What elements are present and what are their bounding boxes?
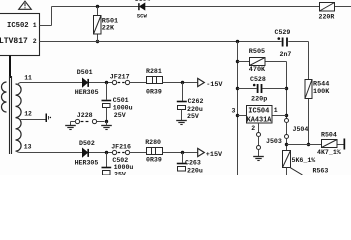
svg-text:25V: 25V: [187, 113, 199, 120]
svg-text:JF216: JF216: [111, 143, 131, 150]
svg-text:220u: 220u: [187, 106, 203, 113]
svg-text:R505: R505: [249, 48, 265, 56]
svg-text:25V: 25V: [114, 112, 126, 119]
svg-text:C529: C529: [275, 29, 291, 36]
svg-text:1000u: 1000u: [114, 164, 134, 171]
svg-text:4K7_1%: 4K7_1%: [317, 149, 341, 156]
svg-text:JF217: JF217: [110, 73, 130, 80]
svg-text:IC502: IC502: [7, 22, 29, 30]
svg-text:C501: C501: [113, 97, 129, 104]
svg-text:5K6_1%: 5K6_1%: [292, 157, 316, 164]
svg-text:2: 2: [33, 38, 37, 45]
svg-text:470K: 470K: [249, 66, 266, 74]
svg-text:D502: D502: [79, 140, 95, 147]
svg-text:C528: C528: [250, 76, 266, 83]
svg-text:13: 13: [24, 144, 32, 151]
svg-text:HER305: HER305: [75, 89, 99, 96]
svg-text:100K: 100K: [313, 88, 330, 96]
svg-text:J504: J504: [293, 126, 309, 133]
svg-text:25V: 25V: [114, 171, 126, 175]
svg-text:C263: C263: [185, 159, 201, 166]
svg-text:C262: C262: [188, 98, 204, 105]
svg-text:R280: R280: [145, 139, 161, 146]
svg-text:SCW: SCW: [137, 13, 148, 20]
svg-text:HER305: HER305: [75, 159, 99, 166]
svg-text:R281: R281: [146, 68, 162, 75]
svg-text:C502: C502: [112, 157, 128, 164]
svg-text:LTV817: LTV817: [0, 37, 28, 46]
svg-text:R563: R563: [313, 167, 329, 174]
svg-text:2n7: 2n7: [280, 51, 292, 58]
svg-text:+15V: +15V: [206, 151, 223, 159]
svg-text:220u: 220u: [187, 167, 203, 174]
svg-text:11: 11: [24, 74, 32, 81]
svg-text:220p: 220p: [251, 96, 267, 104]
svg-text:J228: J228: [77, 112, 93, 119]
svg-text:220R: 220R: [319, 14, 335, 21]
svg-text:IC504: IC504: [248, 108, 269, 116]
svg-text:3: 3: [232, 107, 236, 114]
svg-text:D501: D501: [77, 69, 93, 76]
svg-text:1000u: 1000u: [113, 104, 133, 111]
svg-text:D504: D504: [135, 0, 151, 3]
svg-text:J503: J503: [266, 138, 282, 145]
svg-text:1: 1: [274, 107, 278, 114]
svg-text:R504: R504: [321, 132, 337, 139]
svg-text:KA431A: KA431A: [247, 117, 273, 125]
svg-text:0R39: 0R39: [146, 89, 162, 96]
svg-text:22K: 22K: [102, 24, 115, 32]
svg-text:0R39: 0R39: [146, 156, 162, 163]
svg-text:1: 1: [33, 22, 37, 29]
svg-text:2: 2: [251, 125, 255, 132]
svg-text:12: 12: [24, 110, 32, 117]
svg-text:-15V: -15V: [206, 81, 223, 89]
